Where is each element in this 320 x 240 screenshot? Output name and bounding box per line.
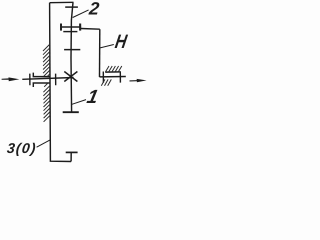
input arrow [2,77,20,81]
wall hatch upper section [43,44,50,76]
planet mesh lower line [63,31,77,33]
frame top line [50,1,74,3]
wall hatch lower section [43,83,50,121]
carrier H vertical arm [99,29,101,77]
X joint diagonal 1 [64,72,77,82]
planet mesh upper line [60,26,81,28]
right support hatch above [105,66,121,72]
planet shaft top tick [65,6,78,8]
upper housing bracket [33,73,50,77]
output arrow [130,79,147,82]
left bearing tick 2 [55,74,57,86]
svg-text:2: 2 [87,0,100,18]
svg-text:3(0): 3(0) [6,141,37,157]
right bearing tick 2 [119,71,121,82]
right support hatch below shaft [101,79,111,85]
ring gear 3 lower stem [70,153,72,162]
output shaft [100,76,126,78]
frame wall (fixed link) [50,3,72,162]
right bearing tick 1 [102,72,104,83]
svg-text:H: H [113,31,129,53]
mesh gear bar left [60,24,62,31]
X joint diagonal 2 [64,72,77,82]
ring gear 3 rim bar [66,151,78,153]
svg-text:1: 1 [85,87,100,108]
label 3 leader [37,140,51,147]
mesh gear bar right [79,24,81,31]
label H leader [100,45,114,48]
gear 1 upper tick [64,49,80,51]
left bearing tick 1 [29,74,31,86]
planet shaft vertical (gear 2 axis line) [71,2,73,112]
label 1 leader [72,100,86,105]
right support ground line [105,71,120,73]
carrier H horizontal arm [81,28,100,31]
input shaft [22,78,73,80]
sun gear 1 bottom cap [63,111,79,113]
lower housing bracket [33,83,50,87]
label 2 leader [73,10,89,18]
